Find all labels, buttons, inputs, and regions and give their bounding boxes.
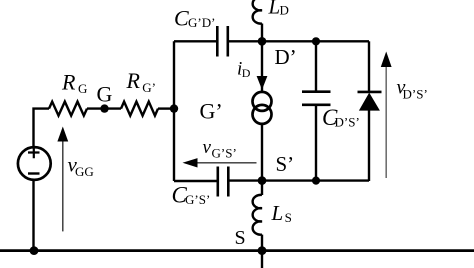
svg-text:S: S [285,210,292,225]
svg-text:L: L [271,201,284,225]
svg-text:C: C [174,5,189,30]
svg-text:G: G [78,81,87,96]
svg-text:G’S’: G’S’ [212,146,237,161]
svg-text:D’S’: D’S’ [335,115,360,130]
svg-text:G’D’: G’D’ [188,15,215,30]
svg-text:G’: G’ [200,98,223,123]
svg-text:D’S’: D’S’ [403,87,428,102]
svg-text:D’: D’ [275,45,297,69]
svg-text:GG: GG [75,164,94,179]
svg-text:R: R [61,69,76,94]
svg-text:G’S’: G’S’ [185,192,210,207]
svg-text:S: S [235,227,246,249]
svg-text:D: D [242,66,251,80]
svg-text:v: v [203,137,212,158]
svg-text:L: L [268,0,281,18]
svg-text:G’: G’ [142,80,156,95]
svg-text:D: D [280,2,289,17]
svg-text:S’: S’ [276,152,295,176]
svg-text:G: G [97,82,113,107]
svg-text:R: R [126,68,141,93]
